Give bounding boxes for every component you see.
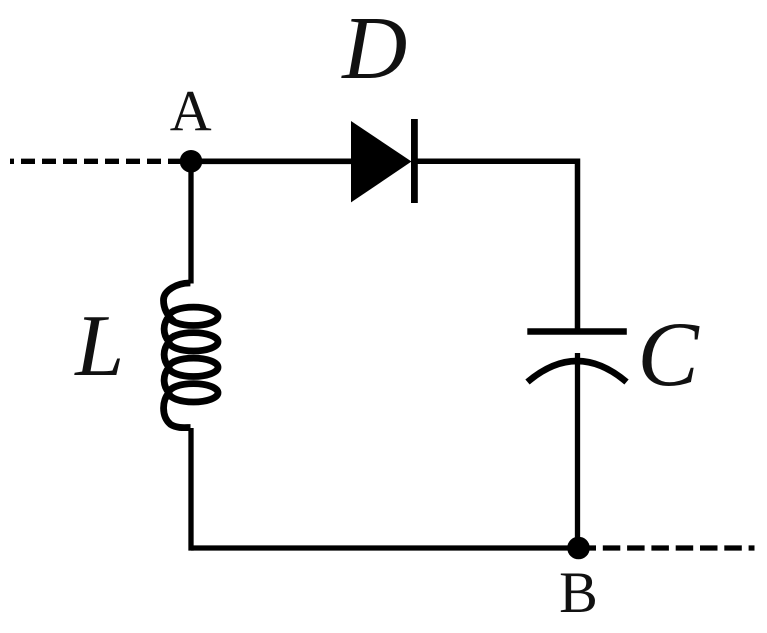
wire diode to top-right corner and down to capacitor xyxy=(414,161,578,330)
bottom wire node B to bottom-left corner xyxy=(191,545,579,550)
dashed lead-out wire at node B xyxy=(579,545,755,550)
wire A to diode xyxy=(191,159,352,165)
wire bottom-left corner up to inductor xyxy=(188,428,193,551)
dashed lead-in wire at node A xyxy=(10,159,180,164)
wire inductor up to node A xyxy=(188,161,193,283)
svg-text:B: B xyxy=(559,560,598,625)
inductor L coil xyxy=(164,283,219,428)
wire capacitor to node B xyxy=(575,353,580,548)
diode D xyxy=(351,119,418,203)
svg-text:A: A xyxy=(170,79,212,144)
svg-text:C: C xyxy=(637,303,700,405)
svg-text:L: L xyxy=(73,298,124,395)
node A junction dot xyxy=(180,150,203,173)
node B junction dot xyxy=(567,537,590,560)
svg-text:D: D xyxy=(340,0,407,98)
capacitor C xyxy=(527,332,627,383)
